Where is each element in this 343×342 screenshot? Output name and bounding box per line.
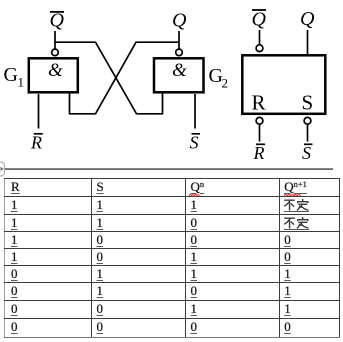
svg-text:2: 2 bbox=[222, 76, 229, 91]
horizontal rule above table bbox=[5, 168, 333, 170]
bubble: block Q-bar bbox=[256, 45, 263, 52]
svg-text:G: G bbox=[4, 64, 18, 86]
wire: block Q pin bbox=[307, 30, 309, 55]
bubble: block R input bbox=[256, 117, 263, 124]
block symbol (right): SR latch box bbox=[242, 55, 325, 114]
svg-text:Q: Q bbox=[252, 9, 267, 31]
svg-text:S: S bbox=[302, 143, 311, 163]
svg-text:1: 1 bbox=[18, 75, 25, 90]
svg-text:R: R bbox=[253, 143, 265, 163]
wire: G1 left input down to R-bar bbox=[38, 94, 40, 129]
svg-text:S: S bbox=[302, 91, 314, 115]
svg-text:Q: Q bbox=[50, 10, 65, 32]
bubble: block S input bbox=[304, 117, 311, 124]
inversion bubble G1 bbox=[52, 49, 59, 56]
node Q-bar label (left circuit) bbox=[50, 10, 65, 32]
truth table bbox=[4, 178, 340, 338]
svg-text:R: R bbox=[30, 133, 42, 153]
wire: Q-bar vertical bbox=[54, 31, 56, 49]
svg-text:Q: Q bbox=[172, 10, 187, 32]
red spell-check squiggle under Q^n header bbox=[189, 193, 200, 197]
table move handle (clipped at left edge) bbox=[0, 162, 5, 176]
wire: G1 output to G2 input (cross) bbox=[55, 42, 163, 114]
red spell-check squiggle under Q^n+1 header bbox=[284, 193, 301, 197]
wire: G2 output to G1 input (cross) bbox=[70, 42, 180, 114]
svg-text:&: & bbox=[172, 60, 187, 81]
wire: Q vertical bbox=[178, 31, 180, 49]
wire: G2 right input down to S-bar bbox=[194, 94, 196, 129]
svg-text:Q: Q bbox=[300, 8, 315, 30]
overbar of Q-bar bbox=[50, 11, 64, 13]
cross-coupled NAND latch circuit bbox=[0, 0, 343, 178]
svg-text:S: S bbox=[190, 133, 199, 153]
NAND gate G1 body bbox=[29, 58, 78, 92]
svg-text:&: & bbox=[48, 60, 63, 81]
wire: block S pin bbox=[307, 124, 309, 141]
inversion bubble G2 bbox=[176, 49, 183, 56]
wire: block R pin bbox=[259, 124, 261, 141]
wire: block Q-bar pin bbox=[259, 30, 261, 45]
NAND gate G2 body bbox=[154, 58, 204, 92]
svg-text:R: R bbox=[252, 91, 266, 115]
